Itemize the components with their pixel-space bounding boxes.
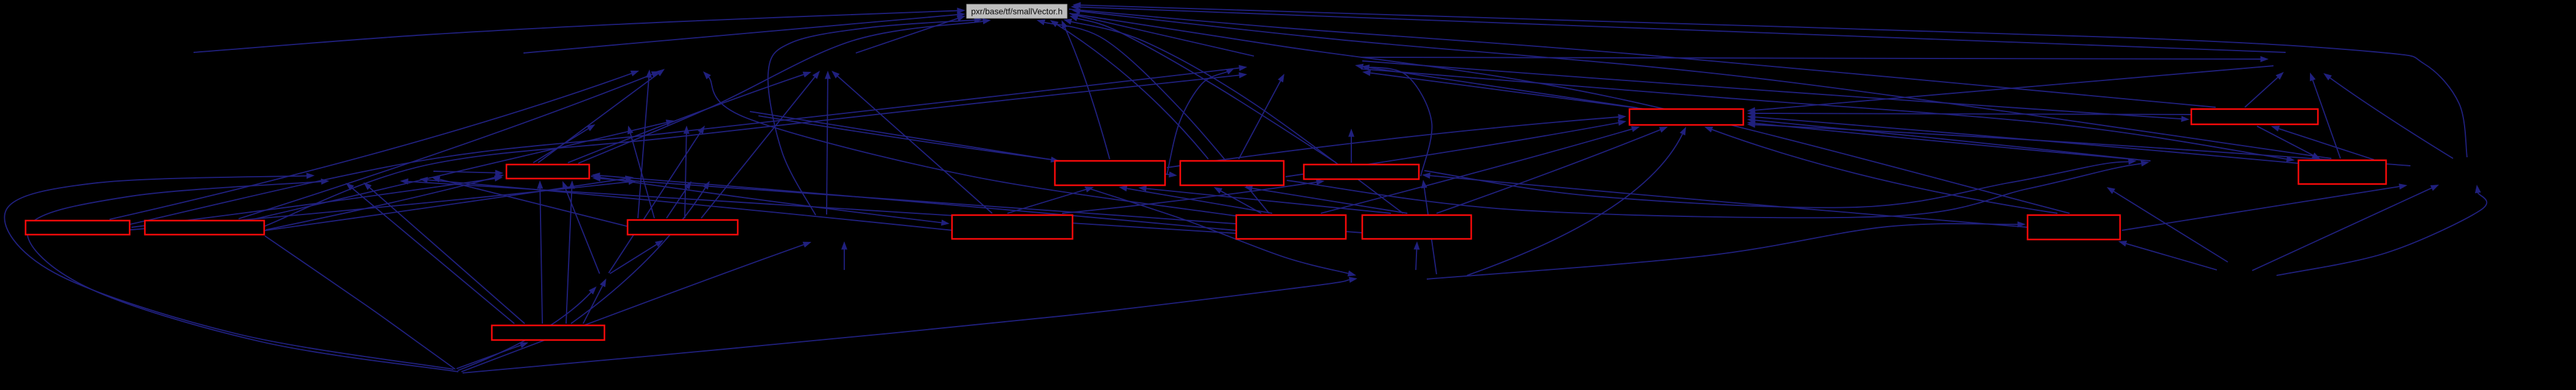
svg-text:pxr/base/tf/smallVector.h: pxr/base/tf/smallVector.h [971, 7, 1062, 16]
